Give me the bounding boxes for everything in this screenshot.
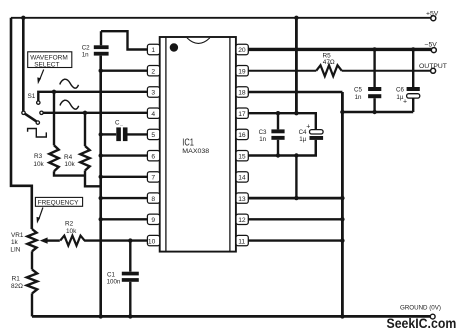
svg-text:8: 8 [151, 196, 155, 203]
wire: VR1 bottom to R1 [31, 251, 33, 269]
wire: pin15 net down to pin 13 wire [295, 156, 297, 199]
wire: pin 2 (GND) [101, 69, 148, 71]
op-amp/IC U1: IC1 MAX038 body [160, 37, 236, 252]
wire: C5/C6 ground link [342, 111, 413, 113]
pin 18 box [236, 87, 248, 97]
pin 2 box [147, 66, 159, 76]
wire: R5 to OUTPUT terminal [342, 70, 431, 72]
svg-text:R2: R2 [65, 220, 74, 227]
resistor R1 82ohm [27, 269, 37, 293]
svg-text:+: + [306, 123, 310, 130]
pin 17 box [236, 108, 248, 118]
IC notch [187, 38, 210, 44]
svg-text:15: 15 [238, 153, 246, 160]
svg-text:10k: 10k [66, 228, 77, 235]
pin 9 box [147, 214, 159, 224]
svg-text:R3: R3 [34, 153, 43, 160]
node: OUTPUT terminal [431, 68, 436, 73]
label box: WAVEFORM SELECT [28, 52, 72, 68]
wire: left rail from +5V down to VR1 [11, 18, 32, 229]
svg-text:14: 14 [238, 175, 246, 182]
svg-text:82Ω: 82Ω [11, 283, 23, 290]
wire: +5V drop to pin 17 [295, 18, 298, 113]
svg-text:+: + [403, 99, 407, 106]
wire: pin 1 (REF) to C2 [101, 31, 147, 49]
svg-text:11: 11 [238, 238, 245, 245]
label box: FREQUENCY [35, 197, 82, 206]
svg-text:IC1: IC1 [182, 138, 194, 149]
pin 8 box [147, 193, 159, 203]
pin 19 box [236, 66, 248, 76]
wire: R3 bottom to R4 bottom [54, 171, 85, 175]
svg-text:100n: 100n [107, 279, 121, 286]
junction: pin11 / gnd bus [340, 238, 344, 242]
svg-text:6: 6 [151, 153, 155, 160]
svg-text:1n: 1n [355, 94, 362, 101]
svg-text:3: 3 [151, 90, 155, 97]
wire: pin 8 (FADJ) [101, 197, 148, 199]
svg-text:19: 19 [238, 68, 246, 75]
capacitor C2 1n [100, 31, 102, 45]
pin 10 box [147, 235, 159, 245]
capacitor C4 1u (electrolytic) [310, 130, 324, 134]
capacitor Cosc (pin 5) [101, 133, 117, 135]
wiper arrow of VR1 [45, 239, 60, 241]
wire: pin 13 (PDI) to ground bus [248, 197, 342, 200]
svg-text:C5: C5 [354, 87, 362, 94]
wire: pin 11 (GND) to ground bus [248, 239, 342, 241]
junction: pin8 / gnd bus [99, 196, 103, 200]
capacitor C6 1u (electrolytic) [412, 49, 414, 87]
svg-text:16: 16 [238, 132, 246, 139]
capacitor C3 1n [277, 113, 279, 129]
junction: pin13 / mid drop [294, 196, 298, 200]
resistor R4 10k [84, 113, 86, 146]
junction: -5V rail / C5 [372, 47, 376, 51]
pin 4 box [147, 108, 159, 118]
resistor R3 10k [53, 92, 55, 146]
wire: pin 12 (PDO) to ground bus [248, 218, 342, 220]
wire: -5V rail from pin 20 [248, 48, 431, 51]
potentiometer VR1 1k LIN [27, 229, 36, 251]
symbol: square wave (throw 3) [28, 129, 47, 138]
junction: pin3 wire / R3 [52, 90, 56, 94]
svg-text:17: 17 [238, 111, 246, 118]
junction: C1 / ground rail [128, 314, 132, 318]
junction: pin2 / gnd bus [99, 69, 103, 73]
wire: R4 bottom to ground bus [85, 171, 101, 187]
wire: pin 18 (GND) to ground bus [248, 91, 342, 93]
junction: top rail / left rail [21, 16, 25, 20]
pin 15 box [236, 151, 248, 161]
junction: top rail / +5V drop [294, 16, 298, 20]
svg-text:13: 13 [238, 196, 246, 203]
pin 1 box [147, 44, 159, 54]
svg-text:4: 4 [151, 111, 155, 118]
wire: R1 bottom to ground rail [31, 293, 33, 316]
resistor R2 10k (horizontal) [60, 236, 84, 246]
wire: top throw to pin 3 (A0) [38, 92, 147, 101]
pin 14 box [236, 172, 248, 182]
pin 16 box [236, 129, 248, 139]
symbol: sine wave (throw 1) [60, 79, 79, 88]
resistor R5 47ohm [316, 65, 341, 76]
capacitor C5 1n [373, 49, 375, 87]
wire: R2 to pin 10 (IIN) [84, 239, 147, 241]
wire: middle throw to pin 4 (A1) [43, 112, 147, 114]
junction: Cosc / gnd bus [99, 132, 103, 136]
svg-text:1n: 1n [259, 136, 266, 143]
wire: pin 7 (DADJ) [101, 176, 148, 178]
junction: pin4 wire / R4 [83, 111, 87, 115]
svg-text:9: 9 [151, 217, 155, 224]
wire: ground rail (0V) [32, 315, 430, 318]
svg-text:1n: 1n [82, 52, 89, 59]
junction: gnd bus / C5C6 link [340, 110, 344, 114]
junction: +5V? drop / pin15 wire [294, 153, 298, 157]
svg-text:18: 18 [238, 90, 246, 97]
svg-text:47Ω: 47Ω [323, 59, 335, 66]
junction: pin12 / gnd bus [340, 217, 344, 221]
svg-text:−5V: −5V [425, 42, 438, 49]
svg-text:WAVEFORM: WAVEFORM [30, 54, 68, 61]
svg-text:S1: S1 [28, 93, 36, 100]
svg-text:R4: R4 [64, 154, 73, 161]
svg-text:1k: 1k [11, 239, 19, 246]
junction: left gnd bus / ground rail [99, 314, 103, 318]
pin 20 box [236, 44, 248, 54]
svg-text:C1: C1 [107, 271, 115, 278]
pin 11 box [236, 235, 248, 245]
wire: pin 15 (DGND) to C3/C4 bottoms [248, 140, 315, 156]
wire: pin 6 (GND) [101, 154, 148, 156]
svg-text:MAX038: MAX038 [182, 148, 210, 155]
svg-text:R1: R1 [12, 276, 21, 283]
IC pin-1 dot [170, 43, 178, 51]
svg-text:SeekIC.com: SeekIC.com [387, 316, 457, 331]
junction: +5V drop / pin17 wire [294, 111, 298, 115]
arrow: waveform select pointer [40, 70, 44, 80]
junction: pin13 / gnd bus [340, 196, 344, 200]
svg-text:VR1: VR1 [11, 232, 24, 239]
pin 13 box [236, 193, 248, 203]
junction: C5 / link [372, 110, 376, 114]
junction: C3 / pin15 wire [276, 153, 280, 157]
svg-text:GROUND (0V): GROUND (0V) [400, 305, 441, 312]
svg-text:1: 1 [151, 47, 155, 54]
svg-text:C6: C6 [396, 87, 404, 94]
svg-text:FREQUENCY: FREQUENCY [38, 200, 79, 207]
svg-text:C3: C3 [259, 129, 267, 136]
wire: pin 19 (OUT) to R5 [248, 70, 316, 72]
capacitor C1 100n [129, 241, 131, 272]
svg-text:2: 2 [151, 68, 155, 75]
svg-text:7: 7 [151, 175, 155, 182]
junction: right gnd bus / ground rail [340, 314, 344, 318]
wire: pin 17 (V+) to C3/C4 [248, 113, 315, 129]
wire: switch pole feed [22, 18, 25, 111]
svg-text:12: 12 [238, 217, 246, 224]
wire: right ground bus [341, 92, 344, 316]
node: GROUND terminal [430, 314, 435, 319]
pin 7 box [147, 172, 159, 182]
junction: pin7 / gnd bus [99, 175, 103, 179]
switch S1 top throw contact [37, 101, 40, 104]
svg-text:20: 20 [238, 47, 246, 54]
wire: pin 9 (GND) [101, 218, 148, 220]
wire: left ground bus (C2 bottom to ground rail) [99, 56, 102, 317]
switch S1 pole contact [22, 111, 25, 114]
switch S1 middle throw contact [40, 111, 43, 114]
svg-text:SELECT: SELECT [34, 61, 59, 68]
junction: -5V rail / C6 [411, 47, 415, 51]
pin 6 box [147, 151, 159, 161]
switch S1 bottom throw contact [36, 121, 39, 124]
pin 5 box [147, 129, 159, 139]
svg-text:5: 5 [151, 132, 155, 139]
node: +5V terminal [431, 16, 436, 21]
pin 12 box [236, 214, 248, 224]
wire: +5V top rail [11, 17, 431, 19]
junction: pin9 / gnd bus [99, 217, 103, 221]
svg-text:OUTPUT: OUTPUT [419, 63, 447, 70]
svg-text:10k: 10k [64, 161, 75, 168]
svg-text:LIN: LIN [10, 246, 20, 253]
svg-text:10: 10 [148, 238, 156, 245]
svg-text:...: ... [120, 121, 124, 126]
junction: pin6 / gnd bus [99, 153, 103, 157]
symbol: sine wave (throw 2) [60, 100, 79, 109]
svg-text:10k: 10k [33, 161, 44, 168]
switch S1 arm [25, 114, 36, 122]
arrow: frequency pointer [39, 208, 43, 220]
junction: C3 / pin17 wire [276, 111, 280, 115]
pin 3 box [147, 87, 159, 97]
node: -5V terminal [431, 48, 436, 53]
junction: C1 tap on pin 10 wire [128, 238, 132, 242]
svg-text:+5V: +5V [426, 10, 439, 17]
svg-text:1µ: 1µ [299, 136, 306, 143]
